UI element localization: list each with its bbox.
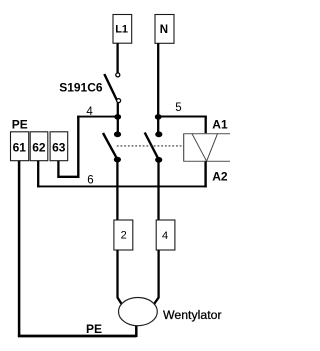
wire box 2 to motor — [118, 250, 122, 305]
motor M fan circle — [118, 298, 157, 326]
wire PE bottom bus — [18, 335, 137, 338]
svg-text:62: 62 — [32, 141, 46, 155]
contactor contact K1 right: bottom terminal dot — [155, 157, 162, 163]
wire node 5 horizontal — [158, 116, 207, 118]
mechanical linkage dashed line — [117, 145, 184, 147]
breaker S191C6 top contact circle — [116, 73, 120, 77]
wire node 6 horizontal to A2 — [37, 185, 207, 187]
node 5 junction dot — [155, 114, 162, 120]
svg-text:PE: PE — [86, 322, 102, 336]
wire PE riser to motor — [135, 325, 138, 338]
contactor coil K1 V symbol — [192, 134, 218, 162]
wire 63 loop horizontal — [57, 176, 79, 178]
terminal box 63 — [50, 132, 68, 161]
svg-text:L1: L1 — [115, 23, 128, 35]
wire PE 61 drop — [18, 161, 21, 337]
terminal box L1 — [113, 15, 132, 44]
svg-text:6: 6 — [87, 174, 93, 186]
svg-text:N: N — [160, 24, 168, 36]
wire left contact to box 2 — [116, 160, 118, 221]
wire right contact to box 4 — [157, 160, 159, 221]
wire A1 drop to coil — [205, 116, 207, 134]
wire L1 to breaker — [116, 43, 118, 73]
svg-text:2: 2 — [121, 229, 127, 241]
terminal box 61 — [11, 132, 29, 161]
wire 63 drop — [57, 161, 59, 178]
wire N down to node 5 — [157, 43, 159, 135]
wire box 4 to motor — [154, 250, 158, 304]
breaker S191C6 bottom contact circle — [117, 99, 121, 103]
breaker S191C6 blade — [104, 74, 117, 100]
wire riser from 63 loop up to node 4 — [77, 116, 79, 178]
wire node 4 horizontal — [77, 116, 118, 118]
terminal box 62 — [30, 132, 48, 161]
contactor contact K1 right: top terminal dot — [155, 131, 162, 137]
wire A2 drop from coil — [204, 161, 206, 187]
contactor contact K1 left: bottom terminal dot — [114, 157, 121, 163]
svg-text:A1: A1 — [212, 118, 228, 132]
svg-text:5: 5 — [175, 102, 181, 114]
svg-text:63: 63 — [52, 141, 66, 155]
contactor coil K1 box — [183, 134, 230, 162]
svg-text:4: 4 — [162, 230, 168, 242]
terminal box N — [155, 15, 174, 44]
contactor contact K1 right: blade — [145, 133, 159, 160]
svg-text:61: 61 — [13, 141, 27, 155]
svg-text:PE: PE — [12, 117, 28, 131]
terminal box 2 — [114, 220, 133, 250]
terminal box 4 — [156, 220, 175, 250]
contactor contact K1 left: top terminal dot — [114, 131, 121, 137]
svg-text:S191C6: S191C6 — [59, 81, 103, 95]
wire breaker to node 4 and contact — [117, 103, 119, 134]
node 4 junction dot — [114, 114, 121, 120]
contactor contact K1 left: blade — [103, 133, 117, 159]
svg-text:Wentylator: Wentylator — [163, 308, 222, 322]
svg-text:A2: A2 — [212, 169, 228, 183]
wire 62 drop — [37, 161, 39, 188]
